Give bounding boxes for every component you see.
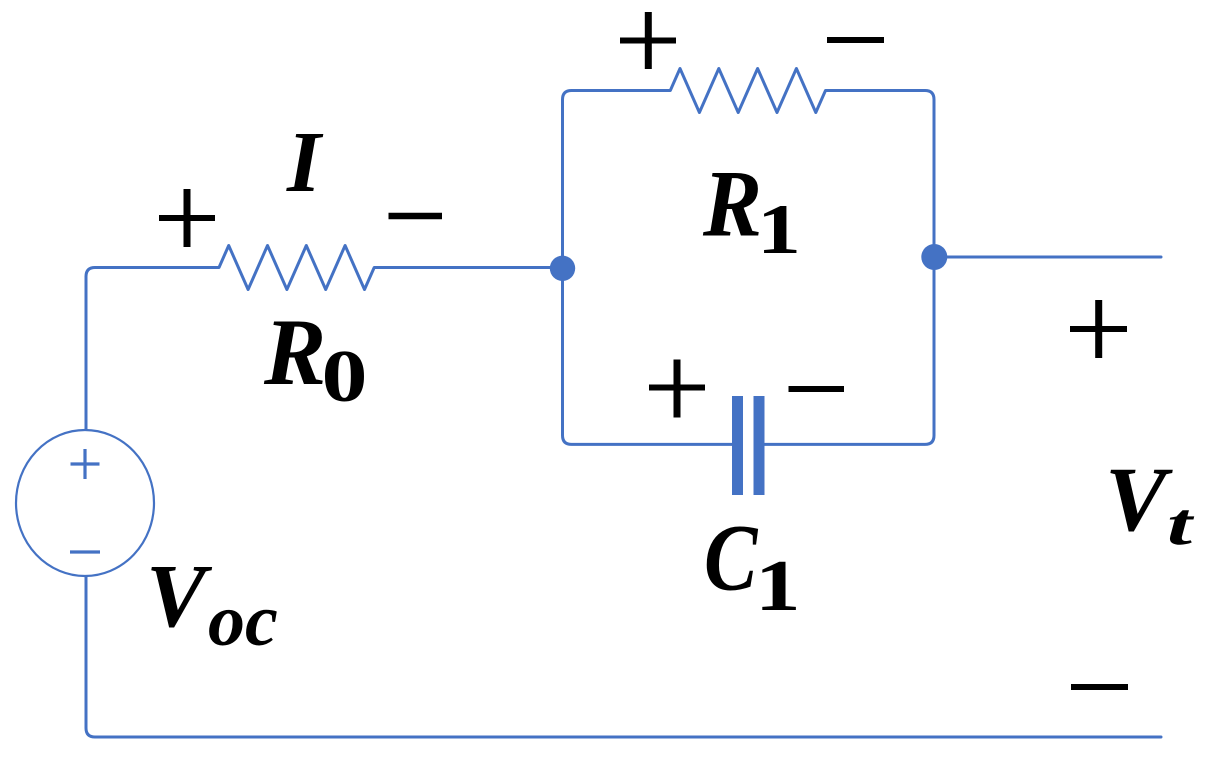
wire: from Voc bottom along the bottom rail to right edge — [86, 576, 1161, 737]
minus label at C1 right — [789, 386, 845, 392]
svg-text:V: V — [1105, 448, 1173, 550]
voltage source plus mark — [71, 449, 100, 479]
minus label at Vt terminal — [1071, 684, 1128, 690]
plus label at R0 left — [159, 215, 215, 221]
capacitor C1 plates — [732, 396, 743, 495]
plus label at Vt terminal — [1070, 326, 1127, 332]
svg-text:C: C — [704, 504, 759, 610]
svg-text:V: V — [146, 547, 213, 646]
wire: from Voc top through resistor R0 to node A — [86, 246, 563, 431]
wire: output wire from node B to right terminal — [934, 256, 1161, 259]
svg-text:1: 1 — [755, 545, 801, 626]
voltage source minus mark — [70, 550, 100, 553]
svg-text:R: R — [263, 299, 326, 405]
minus label at R1 right — [827, 37, 884, 43]
node A junction dot — [550, 256, 575, 281]
plus label at C1 left — [649, 385, 705, 391]
svg-text:t: t — [1167, 491, 1195, 558]
plus label at R1 left — [620, 38, 676, 44]
node B junction dot — [921, 244, 947, 270]
svg-text:I: I — [286, 113, 324, 210]
svg-text:R: R — [702, 151, 762, 257]
minus label at R0 right — [389, 213, 443, 220]
svg-text:0: 0 — [322, 336, 368, 418]
svg-text:1: 1 — [757, 191, 801, 269]
svg-text:oc: oc — [208, 580, 278, 662]
voltage source Voc circle — [16, 430, 154, 576]
wire: RC loop left/top/right/bottom with R1 zigzag on top edge, gap at C1 plates — [563, 69, 935, 445]
